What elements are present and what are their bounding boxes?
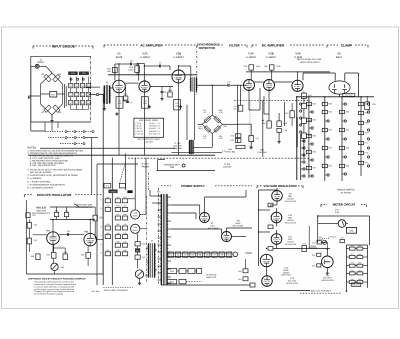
wire ganged link xyxy=(157,170,216,172)
power transformer T2 xyxy=(157,190,169,285)
svg-text:REGULATOR: REGULATOR xyxy=(285,221,297,224)
svg-text:R1-R9: R1-R9 xyxy=(149,122,154,125)
svg-text:R44: R44 xyxy=(123,232,126,235)
range resistor R62 xyxy=(322,164,332,167)
synchronous detector diamond CR2 xyxy=(202,115,222,134)
S2A rotor shaft line xyxy=(119,154,125,191)
divider resistor R14 xyxy=(86,83,90,88)
R13 top wire xyxy=(143,73,145,75)
meter M1 label box xyxy=(346,227,356,233)
range switch contact at col 342.0 xyxy=(342,103,346,105)
V12-V13 wire xyxy=(266,267,268,276)
meter series box R71A xyxy=(340,237,345,243)
oscillator box borders xyxy=(26,198,103,274)
tube V1 xyxy=(113,80,126,93)
svg-text:V7: V7 xyxy=(213,254,215,257)
+225V output line xyxy=(273,245,330,249)
svg-text:R31: R31 xyxy=(106,196,109,199)
switch component C31 xyxy=(105,196,110,203)
svg-text:6AL5: 6AL5 xyxy=(336,56,343,59)
dotted screen line xyxy=(249,100,251,150)
svg-text:V3: V3 xyxy=(184,254,186,257)
svg-text:R74: R74 xyxy=(312,264,315,267)
regulator tube V9 xyxy=(272,191,283,202)
range resistor R54 xyxy=(306,118,316,121)
lower dc-amp dashed boundary xyxy=(234,99,310,101)
divider resistor R16 xyxy=(86,100,90,105)
detector left wire xyxy=(198,123,203,125)
range resistor R61 xyxy=(322,146,332,149)
bias divider row xyxy=(167,279,186,283)
svg-text:1 W ADJ: 1 W ADJ xyxy=(328,235,336,238)
plate resistor R36 xyxy=(244,65,261,70)
range switch contact at col 308.9 xyxy=(309,143,313,145)
V3A wires xyxy=(249,70,251,110)
svg-text:R38: R38 xyxy=(264,65,267,68)
svg-text:WITH ZERO INPUT: WITH ZERO INPUT xyxy=(300,61,320,64)
range resistor R55 xyxy=(306,134,316,137)
section header 1000 CPS OSCILLATOR xyxy=(24,193,103,197)
range switch contact at col 308.9 xyxy=(309,159,313,161)
regulator bottom border xyxy=(240,290,310,292)
svg-text:C42: C42 xyxy=(142,256,145,259)
svg-text:AC AMPLIFIER: AC AMPLIFIER xyxy=(140,43,163,47)
heater pilot circle xyxy=(233,252,238,257)
svg-text:4-57 25M: 4-57 25M xyxy=(92,290,100,293)
range resistor R64 xyxy=(339,128,349,131)
switch component C39 xyxy=(105,223,110,230)
V2A cathode resistor R15 xyxy=(141,97,148,109)
range resistor R67 xyxy=(358,102,368,105)
feedback verticals to T1B xyxy=(187,92,195,141)
switch component C35 xyxy=(115,205,120,212)
divider resistor R10 xyxy=(74,100,78,105)
svg-text:5. ▭ WIRING.: 5. ▭ WIRING. xyxy=(27,177,42,180)
svg-text:NAL VALUE SHOWN.: NAL VALUE SHOWN. xyxy=(30,171,52,174)
svg-text:CLAMP: CLAMP xyxy=(341,43,353,47)
V2B cathode resistor R17 xyxy=(174,99,181,110)
svg-text:R84: R84 xyxy=(81,254,84,257)
input bridge enclosure box xyxy=(31,56,91,122)
svg-text:R59: R59 xyxy=(328,111,331,114)
T1B feedback winding xyxy=(188,134,212,155)
svg-text:C41: C41 xyxy=(123,223,126,226)
S2 enclosure box xyxy=(97,164,138,285)
tube label V4A ½ 6U8 xyxy=(294,52,302,59)
svg-text:R79: R79 xyxy=(32,214,35,217)
R71 meter resistor label xyxy=(335,209,340,215)
divider resistor R11 xyxy=(80,83,84,88)
svg-text:R63: R63 xyxy=(346,111,349,114)
plate resistor R10 xyxy=(107,67,117,80)
svg-text:V5: V5 xyxy=(199,254,201,257)
V1 cathode ground xyxy=(115,112,118,115)
svg-text:REAR: REAR xyxy=(133,229,139,232)
range switch contact at col 300.7 xyxy=(301,168,305,170)
V1 cathode wire down xyxy=(118,92,120,155)
range switch contact at col 342.0 xyxy=(342,138,346,140)
svg-text:INPUT: INPUT xyxy=(37,61,45,64)
svg-text:R42: R42 xyxy=(106,232,109,235)
svg-text:R66: R66 xyxy=(346,165,349,168)
switch component C42 xyxy=(105,232,110,239)
cathode resistor chain R45 xyxy=(301,103,311,108)
detector feed line xyxy=(196,81,246,115)
heater V12 xyxy=(226,252,231,257)
divider resistor R8 xyxy=(74,83,78,88)
range switch contact at col 324.8 xyxy=(325,156,329,158)
switch component C47 xyxy=(105,249,110,256)
svg-text:V3: V3 xyxy=(158,127,160,130)
osc left cap C62 xyxy=(27,222,37,228)
svg-text:R36: R36 xyxy=(244,65,247,68)
svg-text:C62: C62 xyxy=(34,224,37,227)
svg-text:R72: R72 xyxy=(365,152,368,155)
section divider dashed vertical xyxy=(196,46,198,95)
svg-text:V2: V2 xyxy=(158,125,160,128)
V9 label xyxy=(285,193,297,203)
osc tube V6B xyxy=(84,233,97,246)
ganged with S2B label xyxy=(164,163,185,169)
svg-text:C51: C51 xyxy=(238,278,241,281)
wafer outline corner xyxy=(148,160,165,191)
osc cathode resistor R82 xyxy=(46,244,56,258)
V6A+B designation text xyxy=(32,207,50,216)
svg-text:R73: R73 xyxy=(312,254,315,257)
rotor riser wires xyxy=(128,158,146,215)
switch component C33 xyxy=(122,196,127,203)
svg-text:4.7M: 4.7M xyxy=(218,111,223,114)
svg-text:R38: R38 xyxy=(123,213,126,216)
svg-text:R15: R15 xyxy=(143,100,146,103)
range switch contact at col 342.0 xyxy=(342,173,346,175)
heater V3 xyxy=(183,252,188,257)
svg-text:R64: R64 xyxy=(346,129,349,132)
svg-text:C63: C63 xyxy=(34,239,37,242)
heater V7 xyxy=(212,252,217,257)
tube V3A xyxy=(244,80,255,91)
switch component C36 xyxy=(122,205,127,212)
osc resistor R83 xyxy=(63,251,68,260)
rectifier tube V7 xyxy=(200,213,210,223)
range resistor R60 xyxy=(322,128,332,131)
svg-text:DC AMPLIFIER: DC AMPLIFIER xyxy=(262,43,285,47)
svg-text:REGULATOR: REGULATOR xyxy=(285,200,297,203)
svg-text:R85: R85 xyxy=(61,266,64,269)
range switch contact at col 300.7 xyxy=(301,147,305,149)
svg-text:C12: C12 xyxy=(227,81,230,84)
svg-text:S2B: S2B xyxy=(170,166,175,169)
ladder ground arrow xyxy=(345,288,347,293)
svg-text:R56: R56 xyxy=(313,151,316,154)
svg-text:V1: V1 xyxy=(158,122,160,125)
range switch contact at col 342.0 xyxy=(342,156,346,158)
svg-text:S3 FRONT: S3 FRONT xyxy=(341,191,352,194)
attenuator cap C30 xyxy=(365,98,377,110)
regulator tube V10 xyxy=(271,212,282,223)
section header CLAMP xyxy=(327,43,368,47)
svg-text:½ 12AX7: ½ 12AX7 xyxy=(140,56,151,59)
osc resistor R84 xyxy=(81,246,91,258)
svg-text:7. ⊕ SCREWDRIVER ADJUSTMENT.: 7. ⊕ SCREWDRIVER ADJUSTMENT. xyxy=(27,184,65,187)
osc cross coupling caps C61 xyxy=(59,230,84,236)
svg-text:V6A: V6A xyxy=(46,229,51,232)
to meter lamp arrow xyxy=(186,273,217,281)
svg-text:680: 680 xyxy=(176,105,179,108)
svg-text:R40: R40 xyxy=(284,122,287,125)
svg-text:R39: R39 xyxy=(262,122,265,125)
V1 cathode resistor R9 xyxy=(116,97,123,109)
osc internal wires xyxy=(29,207,103,274)
section header AC AMPLIFIER xyxy=(104,43,197,47)
input transformer T1 xyxy=(103,82,113,111)
range resistor R73 xyxy=(358,161,368,164)
osc left resistor R86 xyxy=(31,254,40,260)
svg-text:C36: C36 xyxy=(123,205,126,208)
ladder rung resistors R77 R78 xyxy=(346,253,367,259)
svg-text:R41: R41 xyxy=(136,249,139,252)
bridge network outline xyxy=(41,73,63,115)
svg-text:C13-C16: C13-C16 xyxy=(136,130,143,133)
svg-text:1000 CPS OSCILLATOR: 1000 CPS OSCILLATOR xyxy=(37,193,72,197)
V3B wires xyxy=(269,70,272,121)
tube label V3A ½ 12AX7 xyxy=(246,52,257,59)
regulator tube V11 xyxy=(271,234,282,245)
filter choke resistor R31 xyxy=(233,105,243,111)
svg-text:R45: R45 xyxy=(116,240,119,243)
svg-text:LAMP DS2: LAMP DS2 xyxy=(206,276,217,279)
ref designations table xyxy=(134,118,164,143)
V1 screen resistor R11 xyxy=(124,87,128,101)
lower chain wires xyxy=(137,233,139,268)
wire bridge left down xyxy=(31,66,45,131)
svg-text:R53: R53 xyxy=(313,103,316,106)
tube label V2A ½ 12AX7 xyxy=(140,52,151,59)
svg-text:REF DESIG USED: REF DESIG USED xyxy=(139,119,158,122)
ground return line xyxy=(172,152,223,154)
svg-text:INPUT BRIDGE: INPUT BRIDGE xyxy=(52,44,75,48)
V1 cathode bypass C6 xyxy=(123,100,132,104)
clamp diode tube V5 xyxy=(329,81,350,94)
osc plate resistor R81 xyxy=(64,209,68,216)
V11 label xyxy=(285,236,297,246)
output transformer T1A xyxy=(190,77,198,92)
bridge arm resistor R2 xyxy=(53,73,62,82)
attenuator column bus wires xyxy=(297,97,361,181)
svg-text:R49: R49 xyxy=(123,249,126,252)
V2A plate wire xyxy=(137,63,144,81)
plate resistor R38 xyxy=(264,65,281,70)
regulator wires xyxy=(259,188,277,249)
osc plate resistor R80 xyxy=(54,209,58,216)
small boxes left column xyxy=(312,253,321,267)
osc junction dots xyxy=(52,219,91,235)
tube label V5 6AL5 xyxy=(336,52,343,59)
svg-text:½ 12AX7: ½ 12AX7 xyxy=(173,56,184,59)
feedback switch contacts column xyxy=(300,103,302,133)
divider switch contacts xyxy=(70,78,84,80)
range resistor R65 xyxy=(339,146,349,149)
bridge arm resistor R1 xyxy=(42,73,52,82)
upper chassis line xyxy=(40,147,175,149)
range switch contact at col 300.7 xyxy=(301,161,305,163)
switch component C49 xyxy=(122,249,127,256)
svg-text:R47: R47 xyxy=(106,249,109,252)
heater V2 xyxy=(175,252,180,257)
svg-text:1UF: 1UF xyxy=(233,107,236,110)
svg-text:C40: C40 xyxy=(142,243,145,246)
range switch contact at col 324.8 xyxy=(325,174,329,176)
svg-text:4.7M: 4.7M xyxy=(218,137,223,140)
svg-text:SYNC BAL: SYNC BAL xyxy=(257,151,268,154)
svg-text:REAR: REAR xyxy=(133,215,139,218)
svg-text:VOLTAGE REGULATOR: VOLTAGE REGULATOR xyxy=(263,184,297,188)
tube V3B xyxy=(264,80,275,91)
grid signal wire V1 to V2A xyxy=(125,82,138,84)
feedback capacitor C19 xyxy=(285,103,294,126)
voltage divider header CAL xyxy=(68,72,89,76)
osc left cap C63 xyxy=(27,238,37,244)
switch component C44 xyxy=(122,232,127,239)
interstage caps C8 C9 xyxy=(150,87,173,101)
osc tube V6A xyxy=(47,232,60,245)
detector output wire xyxy=(222,123,237,125)
R72 box xyxy=(312,241,327,249)
svg-text:C50: C50 xyxy=(238,270,241,273)
osc output coupling R87 xyxy=(93,215,102,221)
V2B plate wire to transformer xyxy=(179,66,191,78)
range switch contact at col 324.8 xyxy=(325,120,329,122)
T2 left taps xyxy=(158,196,162,280)
switch component C40 xyxy=(115,223,120,230)
zero adjust pot R69 xyxy=(309,226,326,248)
V3B output vertical xyxy=(262,100,264,157)
tube V4A xyxy=(292,80,303,91)
cross-couple wires V3 xyxy=(249,82,264,110)
divider resistor R9 xyxy=(74,92,78,97)
heater V8 xyxy=(219,252,224,257)
svg-text:+225V: +225V xyxy=(310,245,317,248)
ballast regulator V14 xyxy=(322,249,334,275)
svg-text:R33: R33 xyxy=(123,196,126,199)
svg-text:C43: C43 xyxy=(116,232,119,235)
svg-text:C39: C39 xyxy=(106,223,109,226)
svg-text:METER CIRCUIT: METER CIRCUIT xyxy=(333,203,356,207)
svg-text:6. ○ PANEL CONTROL.: 6. ○ PANEL CONTROL. xyxy=(27,181,51,184)
svg-text:C48: C48 xyxy=(116,249,119,252)
gas regulator tube V13 xyxy=(262,276,273,287)
ladder bottom resistor xyxy=(351,283,361,287)
svg-text:V1: V1 xyxy=(170,254,172,257)
divider resistor R5 xyxy=(69,83,73,88)
svg-text:R73: R73 xyxy=(365,162,368,165)
bridge arm resistor R4 xyxy=(53,105,62,114)
svg-text:RANGE SWITCH: RANGE SWITCH xyxy=(337,189,355,192)
svg-text:½ 12AX7: ½ 12AX7 xyxy=(266,56,277,59)
switch rotor S2A xyxy=(131,210,146,219)
tube V2B xyxy=(172,70,185,83)
V4A plate wire xyxy=(275,72,298,82)
section header DC AMPLIFIER xyxy=(252,43,325,47)
svg-text:C18: C18 xyxy=(284,129,287,132)
V2B screen bypass junction dots xyxy=(118,63,304,125)
series amplifier tube V12 xyxy=(260,254,272,266)
cathode resistor chain R46 xyxy=(301,118,311,123)
svg-text:C61: C61 xyxy=(67,230,70,233)
S2 left margin labels xyxy=(100,199,102,255)
switch component C37 xyxy=(115,213,120,220)
svg-text:R28-R36: R28-R36 xyxy=(149,130,156,133)
svg-text:V2: V2 xyxy=(177,254,179,257)
svg-text:C46: C46 xyxy=(123,240,126,243)
svg-text:WINDING: WINDING xyxy=(173,147,182,150)
divider tap wire upper xyxy=(85,86,100,88)
svg-text:R70: R70 xyxy=(302,242,305,245)
svg-text:1000 CPS: 1000 CPS xyxy=(36,210,47,213)
svg-text:C16: C16 xyxy=(256,137,259,140)
V1 plate wire xyxy=(115,64,119,81)
svg-text:R72: R72 xyxy=(312,241,315,244)
svg-text:C1-C4: C1-C4 xyxy=(136,122,141,125)
oscillator / power supply divider xyxy=(158,188,160,285)
svg-text:R29: R29 xyxy=(223,125,226,128)
svg-text:C5-C8: C5-C8 xyxy=(136,125,141,128)
svg-text:REGULATOR: REGULATOR xyxy=(321,279,334,282)
svg-text:V6B: V6B xyxy=(84,230,89,233)
svg-text:R32: R32 xyxy=(230,135,233,138)
svg-text:V4: V4 xyxy=(158,130,160,133)
terminal strip boxes xyxy=(104,184,126,194)
filter vertical wire xyxy=(237,85,239,143)
B+ bus line AC amplifier xyxy=(108,74,197,76)
switch component C48 xyxy=(115,249,120,256)
svg-text:R60: R60 xyxy=(328,129,331,132)
osc top bus xyxy=(50,207,95,220)
svg-text:R51: R51 xyxy=(170,281,174,284)
range resistor R53 xyxy=(306,102,316,105)
svg-text:T2 PRI: T2 PRI xyxy=(224,163,231,166)
svg-text:C17-C20: C17-C20 xyxy=(136,132,143,135)
V2A cathode wire down xyxy=(144,92,146,155)
regulator left components C50 xyxy=(238,253,255,287)
meter resistor ladder rails xyxy=(346,245,367,288)
svg-text:C6: C6 xyxy=(130,101,132,104)
svg-text:R62: R62 xyxy=(328,165,331,168)
svg-text:R86: R86 xyxy=(31,255,34,258)
wires below notes xyxy=(103,288,133,292)
ladder rung resistors R81 R82 xyxy=(346,269,367,275)
T2 right taps xyxy=(167,197,171,283)
svg-text:8. □ CHASSIS CONTROL.: 8. □ CHASSIS CONTROL. xyxy=(27,187,54,190)
input jack J1 xyxy=(31,59,52,74)
detector diode arm top-left xyxy=(204,116,211,123)
range switch contact at col 324.8 xyxy=(325,138,329,140)
svg-text:6AU6: 6AU6 xyxy=(116,56,123,59)
svg-text:C32: C32 xyxy=(116,196,119,199)
svg-text:V6: V6 xyxy=(206,254,208,257)
bridge bottom wire and ground xyxy=(50,115,53,122)
svg-text:1.0: 1.0 xyxy=(203,137,206,140)
svg-text:BIAS: BIAS xyxy=(236,222,241,225)
range switch contact at col 300.7 xyxy=(301,140,305,142)
lower chain C40 xyxy=(135,242,145,246)
svg-text:C37: C37 xyxy=(116,213,119,216)
svg-text:C34: C34 xyxy=(106,205,109,208)
range resistor R68 xyxy=(358,111,368,114)
svg-text:R61: R61 xyxy=(328,147,331,150)
coupling network R40 xyxy=(277,113,287,143)
switch component C41 xyxy=(122,223,127,230)
